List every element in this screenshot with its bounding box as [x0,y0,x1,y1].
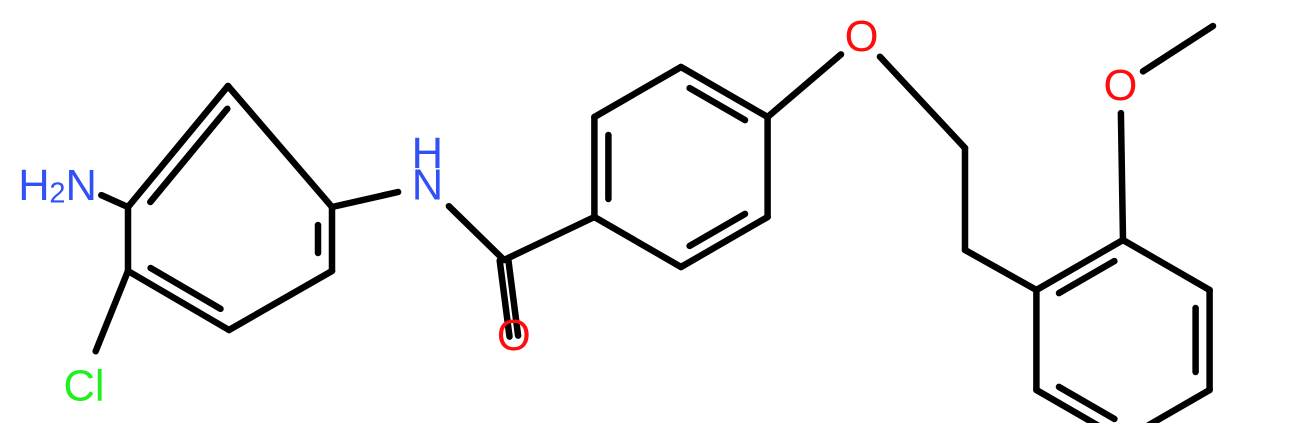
ring B inner line top-right [690,88,745,120]
ring B edge upper-left/lower-left (double) [591,117,598,217]
svg-text:N: N [412,161,443,209]
bond ring A to amide N [332,192,398,207]
bond ring C to methoxy O [1121,113,1123,240]
ring B edge lower-right/upper-right [764,117,771,217]
ring C edge lower-left/bottom (double, cut by canvas) [1036,390,1123,428]
bond CH2-CH2 [962,148,969,250]
ring A edge upper-right/top [228,86,332,207]
ring B inner line bottom-right [690,214,745,246]
bond methoxy O to CH3 [1143,26,1213,71]
bond ring A to Cl [96,271,128,351]
ring C inner line top-left [1059,261,1114,293]
svg-text:O: O [1103,62,1137,110]
ring A edge bottom/lower-right [229,271,332,330]
ring C inner line right [1192,308,1199,372]
bond carbonyl C to ring B [504,217,594,260]
ring B edge lower-left/bottom [594,217,681,267]
ring A edge lower-left/bottom (double) [128,271,229,330]
svg-text:2: 2 [49,177,65,209]
bond ring B to ether O [768,54,841,117]
svg-text:H: H [18,162,49,210]
ring B inner line left [605,135,612,199]
ring C edge upper-right/top [1123,240,1210,290]
ring B edge bottom/lower-right (double) [681,217,768,267]
carbonyl C=O line 1 [500,261,510,337]
bond ring A to NH2 [101,195,128,207]
ring A edge lower-right/upper-right (double) [329,207,336,271]
ring C edge bottom/lower-right [1123,390,1210,428]
ring B edge upper-right/top (double) [681,67,768,117]
ring C edge lower-right/upper-right (double) [1206,290,1213,390]
ring A inner line lower-left/bottom [151,268,221,309]
svg-text:Cl: Cl [63,362,104,410]
ring C edge top/upper-left (double) [1036,240,1123,290]
svg-text:O: O [497,312,531,360]
svg-text:N: N [65,162,96,210]
ring A edge upper-left/lower-left [125,207,132,271]
svg-text:O: O [845,13,879,61]
ring A inner line top/upper-left [150,109,227,202]
bond CH2 to ring C [965,250,1036,290]
bond ether O to CH2 [880,57,965,148]
ring C inner line bottom-left [1059,387,1114,419]
ring B edge top/upper-left [594,67,681,117]
carbonyl C=O line 2 [508,260,518,336]
ring C edge upper-left/lower-left [1033,290,1040,390]
bond amide N to carbonyl C [449,206,504,260]
ring A inner line lower-right/upper-right [315,225,322,253]
ring A edge top/upper-left (double) [128,86,228,207]
